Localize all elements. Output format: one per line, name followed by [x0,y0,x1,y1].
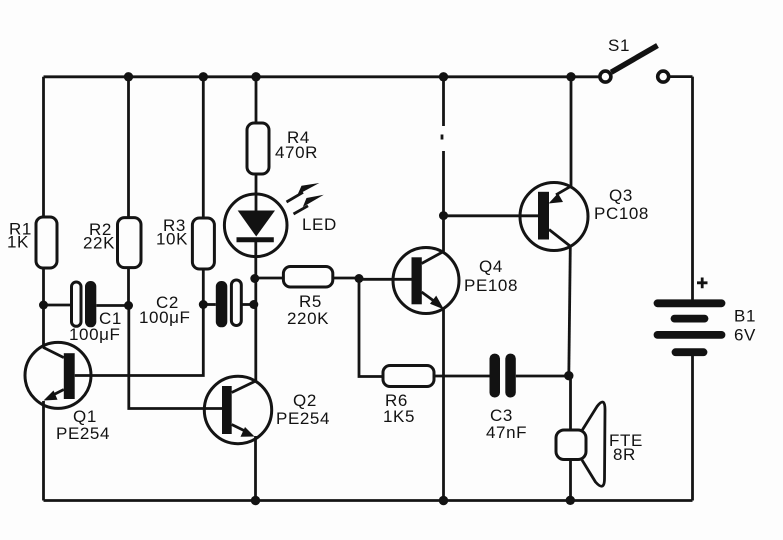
wire: top supply rail [44,75,599,78]
svg-text:100μF: 100μF [139,308,191,327]
node: top rail junction at Q3 column [566,72,575,81]
node: speaker / bottom rail junction [566,496,575,505]
node: LED column / R5 junction [250,274,259,283]
svg-text:470R: 470R [275,143,318,162]
speaker FTE [556,402,605,486]
node: top rail junction at R3 [199,72,208,81]
svg-text:22K: 22K [83,234,115,253]
node: top rail junction at Q4 column [439,72,448,81]
wire: C1 left plate to Q1 collector column [44,304,72,307]
svg-text:PE254: PE254 [276,409,330,428]
svg-text:LED: LED [302,215,337,234]
wire: right rail upper (to battery +) [691,77,694,300]
wire: C1 right plate to R2/Q2 node [96,304,128,307]
wire: LED column to R5 [255,277,284,280]
wire: right rail lower (battery - to bottom rail) [691,355,694,501]
wire: Q3 column from top rail to emitter [570,77,573,187]
svg-text:10K: 10K [156,230,188,249]
node: R5 / R6 / Q4 base junction [355,274,364,283]
wire: Q4 emitter down to bottom rail [442,310,445,501]
node: top rail junction at R4 [251,72,260,81]
svg-text:Q3: Q3 [609,186,633,205]
svg-text:Q2: Q2 [293,391,317,410]
wire: R4 top lead [255,77,258,123]
svg-text:PC108: PC108 [594,204,649,223]
resistor R3 [192,218,214,269]
wire: C1 node down, then right to Q2 base [129,306,222,409]
svg-text:B1: B1 [734,307,756,326]
wire: R6 right to C3 (crosses Q4 emitter line) [434,375,490,378]
resistor R6 [383,366,434,387]
wire: Q3 collector down to speaker node [569,246,571,375]
wire: R1 bottom to Q1 collector [42,268,45,347]
wire: R4 bottom through LED to Q2 collector column [255,174,258,211]
svg-text:1K: 1K [7,233,29,252]
resistor R2 [118,218,142,268]
switch S1 [600,46,669,83]
wire: Q4 column from tee to Q4 collector [442,216,445,252]
svg-text:S1: S1 [608,36,630,55]
wire: Q4 column upper segment (top rail down, printed gap) [442,77,445,126]
svg-text:100μF: 100μF [69,325,121,344]
svg-text:8R: 8R [613,445,636,464]
svg-text:1K5: 1K5 [383,407,415,426]
capacitor C3 [490,354,516,398]
node: Q2 emitter / bottom rail junction [251,496,260,505]
wire: R3 bottom to C2 node [202,269,205,305]
resistor R1 [36,217,57,268]
wire: R2 bottom to C1 node [127,268,130,306]
LED D1 [224,194,287,257]
wire: S1 to right rail [670,75,693,78]
wire: Q2 emitter to bottom rail [254,436,257,501]
wire: C3 right plate to speaker node [516,375,569,378]
svg-text:6V: 6V [734,326,756,345]
wire: C2 right plate to LED column [242,303,254,306]
wire: C2 left plate to R3 node [203,303,216,306]
wire: left column (R1/Q1) upper segment [42,77,45,217]
transistor Q3 [520,183,588,251]
wire: Q3 base wire [444,214,539,217]
wire: Q4 base node to Q4 base [359,278,412,281]
resistor R4 [247,123,269,174]
capacitor C1 [72,281,97,327]
resistor R5 [283,267,332,288]
capacitor C2 [216,280,241,327]
node: C2 / LED column junction [249,300,258,309]
wire: R5 right to Q4 base node [333,277,359,280]
wire: R3 top lead [202,77,205,218]
wire: Q1 emitter to bottom rail [42,401,45,501]
node: C1 / R2 junction [124,301,133,310]
node: C1 / R1 column junction [39,301,48,310]
wire: R2 top lead [127,77,130,218]
svg-text:PE108: PE108 [464,276,518,295]
wire: Q4 base node down to R6 [359,279,383,377]
wire: bottom ground rail [44,499,693,502]
LED light arrow 2 [294,195,324,214]
transistor Q2 [204,376,271,443]
node: Q3 base tee on Q4 column [439,211,448,220]
wire: speaker node down to speaker [569,376,572,430]
LED light arrow 1 [287,183,320,202]
battery B1 [658,278,722,353]
svg-text:Q4: Q4 [479,257,503,276]
wire: speaker bottom to bottom rail [569,460,572,501]
svg-text:220K: 220K [287,309,329,328]
svg-text:47nF: 47nF [486,423,527,442]
transistor Q4 [393,248,459,314]
node: C2 / R3 junction [199,300,208,309]
node: C3 / Q3 collector / speaker junction [564,371,573,380]
svg-text:PE254: PE254 [56,424,110,443]
wire: C2-left node down then left to Q1 base [75,305,204,376]
node: Q4 emitter / bottom rail junction [439,496,448,505]
transistor Q1 [25,342,91,408]
node: top rail junction at R2 [124,72,133,81]
